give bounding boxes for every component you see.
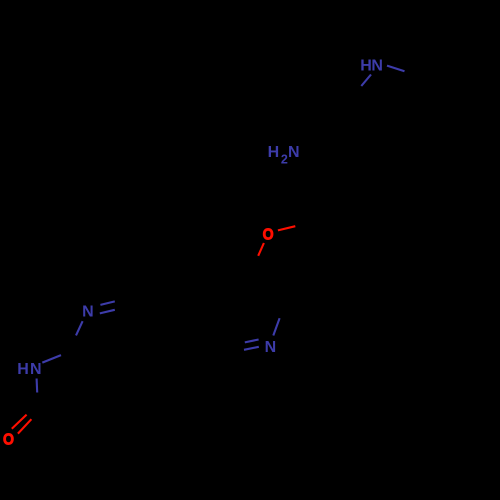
- svg-text:2: 2: [281, 152, 288, 166]
- svg-text:H: H: [360, 58, 372, 75]
- double bond N=C main line, blue half: [100, 301, 114, 305]
- wire: azaoxindole carbon skeleton: [26, 296, 172, 418]
- bond O-C(pyridine), red half: [258, 243, 264, 256]
- wire: amine/ether chain carbons: [295, 150, 355, 226]
- svg-text:N: N: [82, 303, 94, 320]
- double bond C=N inner line, blue half: [245, 340, 259, 343]
- svg-text:N: N: [288, 144, 300, 161]
- svg-text:H: H: [17, 361, 29, 378]
- svg-text:O: O: [263, 227, 274, 244]
- double bond C=O inner line, red half: [18, 419, 32, 433]
- svg-text:N: N: [30, 361, 42, 378]
- svg-text:N: N: [371, 58, 383, 75]
- bond O-CH2, red half: [278, 226, 295, 230]
- bond N1(indole)-C7a, blue half: [361, 75, 371, 87]
- double bond C=N main line, blue half: [244, 347, 259, 350]
- bond N1(indole)-C2, blue half: [387, 66, 405, 72]
- bond N1-C2, blue half: [36, 379, 39, 393]
- double bond N=C inner line, blue half: [100, 310, 115, 314]
- bond N1-C7a, blue half: [42, 355, 61, 363]
- svg-text:O: O: [3, 431, 14, 448]
- wire: right pyridine ring carbons: [205, 258, 288, 352]
- double bond C=O outer line, red half: [12, 415, 27, 429]
- wire: indole carbon skeleton (carbon bonds, black on black): [345, 67, 478, 196]
- svg-text:H: H: [268, 144, 280, 161]
- bond N-C (ring, up-right), blue half: [273, 318, 279, 335]
- bond N7-C7a, blue half: [76, 321, 83, 335]
- wire: biaryl link carbons: [115, 296, 205, 330]
- svg-text:N: N: [265, 339, 277, 356]
